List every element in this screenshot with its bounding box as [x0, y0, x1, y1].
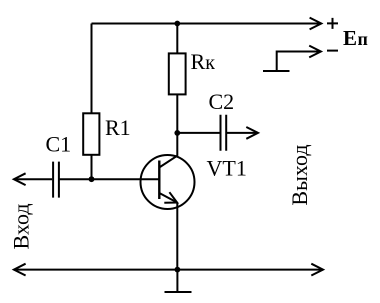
wire C2 output lead: [226, 132, 258, 134]
svg-text:VT1: VT1: [207, 155, 247, 180]
transistor VT1 collector diagonal: [160, 156, 177, 167]
transistor VT1 emitter diagonal: [160, 193, 177, 202]
svg-text:Выход: Выход: [287, 144, 312, 205]
wire Rk bottom lead: [176, 94, 178, 132]
svg-text:C1: C1: [46, 132, 72, 157]
node junction base: [89, 176, 95, 182]
resistor Rk: [169, 53, 186, 94]
wire minus terminal: [277, 52, 321, 72]
arrowhead input: [14, 173, 26, 185]
minus sign: [327, 50, 338, 52]
arrowhead plus terminal: [310, 18, 322, 30]
wire base lead: [59, 178, 159, 180]
svg-text:Еп: Еп: [343, 26, 368, 50]
wire top positive rail: [92, 23, 322, 25]
wire R1 bottom lead: [91, 155, 93, 179]
arrowhead output: [246, 127, 258, 139]
wire output segment: [177, 132, 219, 134]
resistor R1: [83, 113, 99, 155]
wire Rk top lead: [176, 24, 178, 54]
wire emitter lead: [176, 203, 178, 270]
transistor VT1 base bar: [158, 161, 160, 200]
wire input segment: [14, 178, 52, 180]
ground bar power common: [263, 70, 290, 72]
svg-text:R1: R1: [105, 115, 131, 140]
arrowhead bottom left: [14, 264, 26, 276]
plus sign: [327, 18, 338, 29]
wire R1 top lead: [91, 24, 93, 114]
wire collector lead: [176, 133, 178, 156]
wire ground stub: [176, 270, 178, 292]
svg-text:Rк: Rк: [191, 49, 216, 74]
arrowhead minus terminal: [309, 46, 321, 58]
svg-text:C2: C2: [209, 89, 235, 114]
wire bottom common rail: [14, 269, 323, 271]
arrowhead emitter: [164, 192, 177, 203]
node junction top rail: [174, 21, 180, 27]
node junction collector: [174, 130, 180, 136]
capacitor C2: [221, 115, 227, 151]
transistor VT1 body circle: [141, 155, 195, 209]
node junction bottom rail: [175, 267, 181, 273]
ground bar bottom: [165, 291, 192, 293]
capacitor C1: [53, 162, 59, 198]
arrowhead bottom right: [311, 264, 323, 276]
svg-text:Вход: Вход: [8, 203, 33, 249]
